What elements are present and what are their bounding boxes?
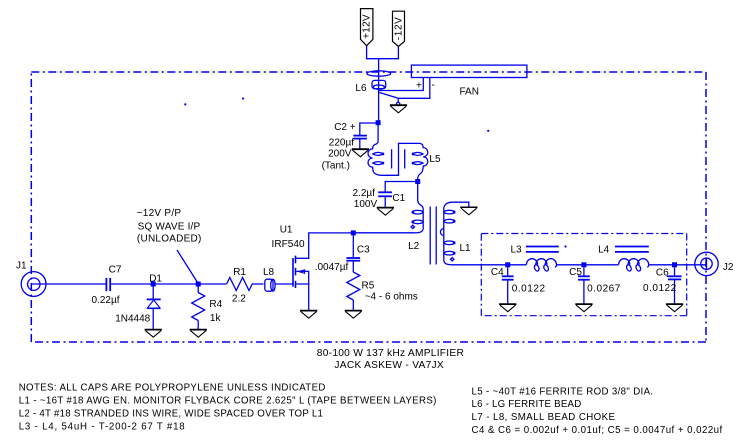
capacitor C1 bbox=[378, 191, 392, 193]
mosfet gate bar bbox=[292, 258, 294, 287]
capacitor C3 bbox=[346, 257, 360, 259]
node L5/C1 junction bbox=[415, 179, 420, 184]
node C6 bbox=[672, 262, 677, 267]
svg-text:IRF540: IRF540 bbox=[272, 239, 306, 250]
svg-text:~4 - 6 ohms: ~4 - 6 ohms bbox=[365, 292, 418, 303]
wire R1 to L8 bbox=[252, 283, 264, 285]
svg-text:~12V P/P: ~12V P/P bbox=[137, 208, 182, 219]
mosfet channel segments bbox=[295, 256, 297, 288]
power flag -12V bbox=[393, 11, 405, 46]
wire main feed vertical bbox=[378, 59, 380, 123]
svg-text:R5: R5 bbox=[362, 280, 375, 291]
wire L4 to C6 node bbox=[649, 264, 675, 266]
L1 phase dot bbox=[451, 258, 454, 261]
svg-text:220µf: 220µf bbox=[329, 138, 354, 149]
svg-text:-12V: -12V bbox=[393, 17, 404, 40]
stray dot (L3) bbox=[564, 245, 566, 247]
low-pass filter dash-dot box bbox=[481, 234, 686, 316]
svg-text:1k: 1k bbox=[210, 313, 222, 324]
svg-text:L3: L3 bbox=[511, 244, 523, 255]
wire C6 node to J2 bbox=[675, 264, 707, 266]
fan box bbox=[411, 65, 527, 77]
wire annotation pointer bbox=[177, 250, 198, 284]
TOP POWER SECTION bbox=[367, 46, 527, 123]
svg-text:L6 - LG FERRITE BEAD: L6 - LG FERRITE BEAD bbox=[472, 399, 582, 410]
svg-text:C4: C4 bbox=[491, 267, 504, 278]
connector J2 bbox=[695, 252, 718, 275]
wire C4 node to L3 bbox=[508, 264, 527, 266]
capacitor C7 bbox=[105, 278, 107, 291]
ground (U1 source) bbox=[300, 311, 317, 319]
wire R4 junction down bbox=[197, 284, 199, 293]
svg-text:+12V: +12V bbox=[361, 14, 372, 39]
INPUT ROW bbox=[21, 250, 293, 329]
SNUBBER C3/R5 bbox=[346, 230, 360, 310]
svg-text:C5: C5 bbox=[569, 267, 582, 278]
transformer L2 primary trunk bbox=[355, 209, 423, 233]
svg-text:C1: C1 bbox=[392, 193, 405, 204]
svg-text:(UNLOADED): (UNLOADED) bbox=[137, 234, 201, 245]
wire +12V stem bbox=[367, 46, 399, 59]
choke L8 ferrite bead bbox=[265, 279, 273, 291]
svg-text:+: + bbox=[416, 81, 422, 92]
L2 phase dot bbox=[411, 225, 414, 228]
svg-text:L5 - ~40T #16 FERRITE ROD 3/8": L5 - ~40T #16 FERRITE ROD 3/8" DIA. bbox=[472, 386, 654, 397]
resistor R4 bbox=[192, 293, 205, 321]
transformer core lines bbox=[429, 207, 431, 265]
L5 right leaf loops bbox=[413, 152, 424, 155]
ground (R4) bbox=[190, 330, 207, 338]
svg-text:FAN: FAN bbox=[460, 87, 479, 98]
wire L1 top to ground bbox=[453, 202, 469, 207]
svg-text:JACK ASKEW - VA7JX: JACK ASKEW - VA7JX bbox=[334, 360, 444, 371]
svg-text:(Tant.): (Tant.) bbox=[322, 160, 350, 171]
L1 leaf loops bbox=[444, 210, 455, 214]
capacitor C5 bbox=[578, 275, 590, 277]
capacitor C6 bbox=[667, 275, 682, 277]
mosfet drain lead bbox=[296, 233, 416, 258]
svg-text:J1: J1 bbox=[16, 261, 27, 272]
wire fan plus lead bbox=[379, 78, 424, 91]
OUTPUT FILTER bbox=[481, 245, 718, 303]
C1 BRANCH bbox=[378, 179, 420, 207]
stray dot (mid) bbox=[487, 130, 489, 132]
svg-text:C3: C3 bbox=[357, 245, 370, 256]
ground (C2) bbox=[352, 149, 369, 157]
L5 core lines bbox=[391, 149, 393, 168]
wire C5 node to L4 bbox=[584, 264, 619, 266]
ground (C4) bbox=[499, 304, 516, 312]
inductor L4 bbox=[619, 259, 630, 265]
MOSFET U1 bbox=[293, 233, 415, 310]
stray dot (left b) bbox=[242, 97, 244, 99]
wire C1 to ground bbox=[384, 197, 386, 207]
svg-text:1N4448: 1N4448 bbox=[115, 314, 150, 325]
node drain/C3 bbox=[351, 230, 356, 235]
power flag +12V bbox=[361, 9, 373, 46]
wire L1 to C4 node bbox=[481, 264, 507, 266]
L2 leaf loops bbox=[412, 210, 423, 214]
svg-text:C6: C6 bbox=[656, 267, 669, 278]
wire L3 to C5 node bbox=[557, 264, 584, 266]
wire L8 to gate bbox=[275, 283, 293, 285]
node R4 bbox=[196, 282, 201, 287]
wire C7 to R1 bbox=[110, 283, 226, 285]
capacitor C2 bbox=[353, 135, 367, 137]
svg-text:0.0122: 0.0122 bbox=[512, 284, 546, 295]
ground (C5) bbox=[575, 304, 592, 312]
wire junction to C1 bbox=[385, 182, 418, 192]
ground (D1) bbox=[145, 330, 162, 338]
node C2/L5 junction bbox=[376, 120, 381, 125]
wire fan minus lead bbox=[398, 78, 430, 103]
mosfet source lead bbox=[296, 284, 309, 310]
capacitor C4 bbox=[502, 275, 514, 277]
L3 core lines bbox=[526, 246, 559, 248]
node D1 bbox=[151, 282, 156, 287]
ground (fan) bbox=[390, 105, 407, 113]
node C4 bbox=[505, 262, 510, 267]
svg-text:C4 & C6 = 0.002uf + 0.01uf;: C4 & C6 = 0.002uf + 0.01uf; C5 = 0.0047u… bbox=[472, 425, 723, 436]
wire junction to C2 bbox=[360, 123, 378, 135]
svg-text:100V: 100V bbox=[354, 199, 378, 210]
svg-text:-: - bbox=[432, 80, 435, 91]
resistor R1 bbox=[227, 278, 253, 291]
svg-text:0.0122: 0.0122 bbox=[643, 283, 677, 294]
svg-text:R1: R1 bbox=[233, 267, 246, 278]
connector J1 bbox=[21, 272, 46, 297]
feedthrough grommet bbox=[367, 71, 391, 76]
ground (C1) bbox=[377, 208, 394, 216]
C2 BRANCH bbox=[353, 120, 380, 149]
transformer L1 secondary trunk bbox=[444, 202, 482, 265]
diode D1 bbox=[147, 298, 161, 300]
svg-text:NOTES: ALL CAPS ARE POLYPROPYL: NOTES: ALL CAPS ARE POLYPROPYLENE UNLESS… bbox=[19, 383, 326, 394]
wire J1 to C7 bbox=[32, 283, 107, 285]
inductor L3 bbox=[526, 259, 537, 265]
L5 left leaf loops bbox=[373, 152, 384, 155]
svg-text:80-100 W 137 kHz AMPLIFIER: 80-100 W 137 kHz AMPLIFIER bbox=[317, 348, 464, 359]
svg-text:.0047µf: .0047µf bbox=[315, 262, 349, 273]
stray dot (left a) bbox=[184, 103, 186, 105]
svg-text:L7 - L8, SMALL BEAD CHOKE: L7 - L8, SMALL BEAD CHOKE bbox=[472, 412, 616, 423]
svg-text:L2: L2 bbox=[408, 241, 420, 252]
wire L5 junction down to L2 bbox=[418, 184, 424, 209]
node fan ground dot bbox=[397, 102, 400, 105]
svg-text:U1: U1 bbox=[280, 225, 293, 236]
ground (C6) bbox=[666, 304, 683, 312]
ground (L1 top) bbox=[460, 207, 477, 215]
svg-text:0.0267: 0.0267 bbox=[587, 284, 621, 295]
svg-text:SQ WAVE I/P: SQ WAVE I/P bbox=[138, 221, 201, 232]
node C5 bbox=[581, 262, 586, 267]
svg-text:L4: L4 bbox=[598, 244, 610, 255]
svg-text:C7: C7 bbox=[109, 265, 122, 276]
ferrite bead L6 bbox=[372, 80, 386, 88]
wire D1 to ground bbox=[152, 309, 154, 330]
L1 winding mid bump bbox=[440, 229, 443, 236]
mosfet body lead with arrow bbox=[296, 271, 308, 283]
wire junction to C3 bbox=[352, 235, 354, 257]
INDUCTOR L5 bbox=[368, 125, 428, 179]
svg-text:L5: L5 bbox=[429, 154, 441, 165]
svg-text:L3 - L4, 54uH - T-200-2 67: L3 - L4, 54uH - T-200-2 67 T #18 bbox=[19, 422, 185, 433]
svg-text:0.22µf: 0.22µf bbox=[92, 295, 120, 306]
wire C3 to R5 bbox=[352, 261, 354, 272]
svg-text:L2 - 4T #18 STRANDED INS WIRE,: L2 - 4T #18 STRANDED INS WIRE, WIDE SPAC… bbox=[19, 409, 323, 420]
svg-text:L6: L6 bbox=[355, 83, 367, 94]
ground (R5) bbox=[345, 311, 362, 319]
svg-text:J2: J2 bbox=[723, 262, 734, 273]
svg-text:L1 - ~16T #18 AWG EN. MONITOR: L1 - ~16T #18 AWG EN. MONITOR FLYBACK CO… bbox=[19, 396, 437, 407]
wire C2 to ground bbox=[359, 139, 361, 149]
enclosure dash-dot border (outer box) bbox=[31, 72, 706, 342]
wire D1 junction down bbox=[152, 284, 154, 299]
L4 core lines bbox=[615, 246, 649, 248]
svg-text:C2 +: C2 + bbox=[334, 122, 356, 133]
svg-text:L8: L8 bbox=[263, 267, 275, 278]
TRANSFORMER L2/L1 bbox=[355, 184, 481, 265]
svg-text:L1: L1 bbox=[460, 243, 472, 254]
svg-text:200V: 200V bbox=[328, 149, 352, 160]
wire R5 to ground bbox=[352, 300, 354, 310]
wire R4 to ground bbox=[197, 321, 199, 330]
svg-text:2.2: 2.2 bbox=[232, 293, 246, 304]
resistor R5 bbox=[347, 272, 360, 300]
wire diagonal to ground node bbox=[380, 93, 399, 99]
svg-text:2.2µf: 2.2µf bbox=[353, 188, 376, 199]
svg-text:D1: D1 bbox=[149, 274, 162, 285]
svg-text:R4: R4 bbox=[209, 299, 222, 310]
inductor L5 left winding bbox=[368, 125, 428, 179]
